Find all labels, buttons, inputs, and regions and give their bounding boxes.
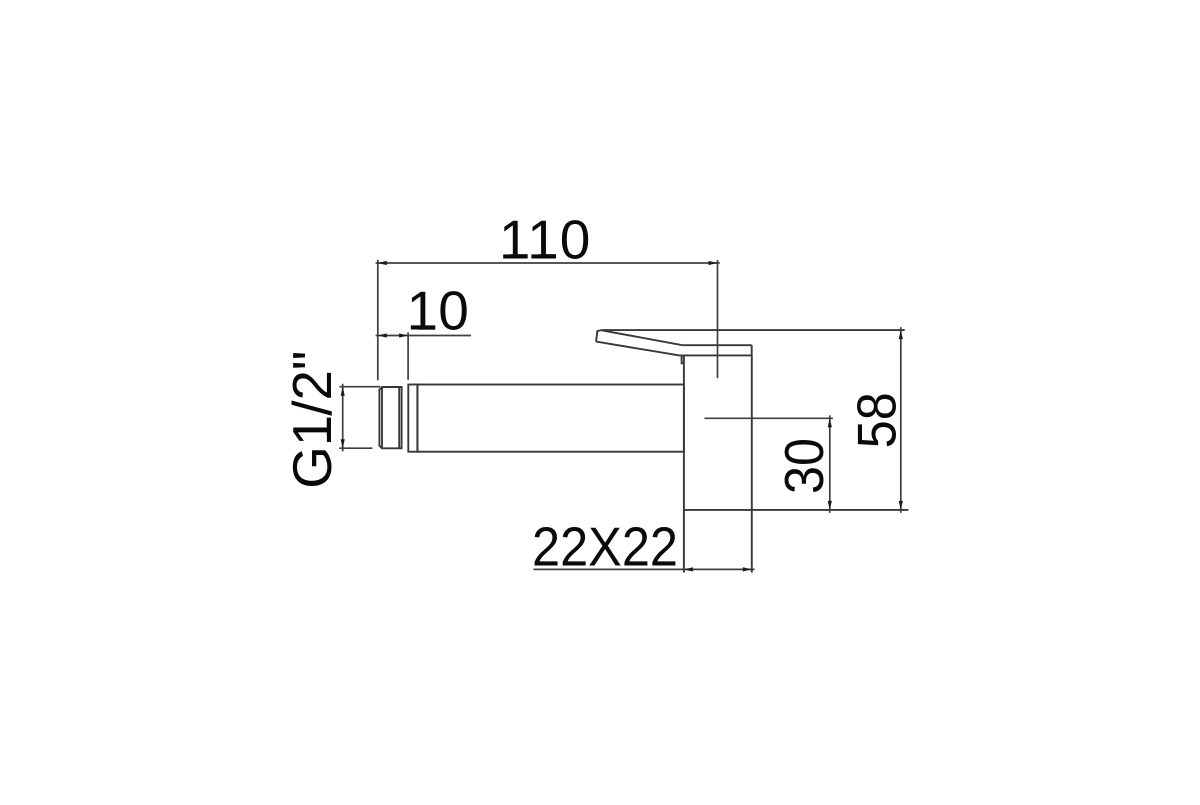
svg-text:58: 58 xyxy=(846,392,908,448)
wire: dim line 22X22 xyxy=(534,568,755,570)
arrow 22 left xyxy=(684,567,693,571)
wire: valve body left edge xyxy=(683,356,685,573)
arrow G bottom xyxy=(341,439,345,448)
wire: lever top back edge extended to 58 dim xyxy=(602,329,905,331)
wire: dim line 10 with leader xyxy=(376,335,471,337)
wire: lever right plate top xyxy=(682,344,751,346)
arrow 10 right xyxy=(399,333,408,337)
svg-text:1: 1 xyxy=(527,208,558,270)
svg-text:30: 30 xyxy=(773,438,835,494)
wire: spout nipple G1/2 threaded end outline xyxy=(379,387,401,448)
wire: nipple thread inner line right xyxy=(398,387,400,448)
arrow 30 bottom xyxy=(828,501,832,510)
svg-text:G1/2": G1/2" xyxy=(281,351,343,489)
wire: lever right plate right edge xyxy=(751,345,753,355)
wire: dim line G1/2 xyxy=(342,384,344,452)
wire: ext line G top xyxy=(339,386,380,388)
wire: lever top front slant xyxy=(602,330,683,345)
arrow G top xyxy=(341,387,345,396)
arrow 22 right xyxy=(743,567,752,571)
arrow 10 left xyxy=(378,333,387,337)
wire: dim line 58 xyxy=(900,327,902,513)
wire: dim line 110 xyxy=(376,262,720,264)
wire: cartridge notch xyxy=(682,356,684,364)
arrow 110 left xyxy=(378,261,387,265)
arrow 30 top xyxy=(828,418,832,427)
svg-text:1: 1 xyxy=(407,280,438,342)
wire: valve body bottom edge extended xyxy=(684,509,909,511)
wire: ext line 30 top xyxy=(704,417,833,419)
arrow 110 right xyxy=(709,261,718,265)
wire: collar ring xyxy=(408,385,417,452)
wire: ext line 110 right xyxy=(717,260,719,378)
wire: lever plate bottom edge xyxy=(679,354,752,356)
wire: spout pipe body xyxy=(417,385,684,452)
wire: ext line G bottom xyxy=(339,447,372,449)
svg-text:22X22: 22X22 xyxy=(532,516,678,578)
wire: ext line 10 right xyxy=(407,332,409,379)
wire: ext line left shared xyxy=(377,260,379,381)
wire: nipple thread inner line left xyxy=(381,387,383,448)
arrow 58 bottom xyxy=(899,501,903,510)
svg-text:0: 0 xyxy=(560,208,591,270)
svg-text:0: 0 xyxy=(438,280,469,342)
wire: valve body right edge xyxy=(751,355,753,572)
wire: dim line 30 xyxy=(829,415,831,513)
wire: lever left tip xyxy=(596,330,602,342)
arrow 58 top xyxy=(899,330,903,339)
svg-text:1: 1 xyxy=(499,208,530,270)
wire: lever bottom slant xyxy=(596,342,679,356)
